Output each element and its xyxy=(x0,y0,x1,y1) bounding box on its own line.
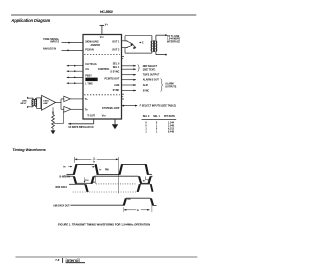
svg-text:OUT 2: OUT 2 xyxy=(112,49,120,52)
svg-text:AMI DATA OUT: AMI DATA OUT xyxy=(53,205,70,208)
svg-text:C: C xyxy=(142,42,144,44)
pin PCM IN label xyxy=(85,49,94,52)
pin SYNC label xyxy=(113,89,120,92)
svg-text:S SYNC: S SYNC xyxy=(110,71,119,74)
pin stub unconnected lower right xyxy=(122,94,125,99)
pin PCM/TS OUT label xyxy=(105,77,120,80)
node DATA OUT label xyxy=(53,205,70,208)
pin stub unconnected upper right xyxy=(122,57,125,59)
svg-text:intersil: intersil xyxy=(66,258,80,263)
svg-text:tD: tD xyxy=(143,179,146,182)
wire analog in to IC xyxy=(62,49,84,51)
wire IC to driver upper xyxy=(122,40,128,42)
svg-text:SYNC: SYNC xyxy=(143,90,150,92)
wire data waveform row 2 xyxy=(66,176,153,184)
svg-text:PCM/TS OUT: PCM/TS OUT xyxy=(105,77,120,80)
svg-text:B-NRZ IN: B-NRZ IN xyxy=(59,177,70,179)
svg-text:TONE SIGNAL: TONE SIGNAL xyxy=(43,38,59,41)
pin OUT 2 label xyxy=(112,49,120,52)
node alarm B label xyxy=(143,79,160,82)
wire alarm B pin xyxy=(122,79,137,81)
svg-text:HC-5560: HC-5560 xyxy=(100,10,113,14)
svg-text:ANALOG IN: ANALOG IN xyxy=(43,47,56,50)
footer divider bar xyxy=(62,258,64,263)
svg-text:ALARM B OUT: ALARM B OUT xyxy=(143,79,160,82)
svg-text:FIGURE 1. TRANSMIT TIMING WAVE: FIGURE 1. TRANSMIT TIMING WAVEFORMS FOR … xyxy=(58,222,150,226)
node tR label xyxy=(63,166,72,169)
svg-text:TS/FS OUTPUT: TS/FS OUTPUT xyxy=(143,75,160,77)
svg-text:PCM IN: PCM IN xyxy=(85,49,94,52)
wire control CH TR xyxy=(66,65,83,67)
wire threshold feedback xyxy=(54,111,64,123)
wire sampling reference line xyxy=(118,157,120,194)
svg-text:Application Diagram: Application Diagram xyxy=(10,18,50,23)
node LINE INPUT terminals xyxy=(20,97,30,108)
pin TI OUT label xyxy=(87,115,95,118)
wire frequency select pin xyxy=(122,105,138,107)
node TONE SIGNAL input label xyxy=(43,38,59,44)
svg-text:SEL 0: SEL 0 xyxy=(143,115,150,118)
wire amp output node xyxy=(56,99,64,109)
node clock fall reference tick xyxy=(94,176,96,184)
svg-text:tSU: tSU xyxy=(85,179,89,182)
node row2 end setup arrow xyxy=(146,176,151,180)
section heading Timing Waveforms xyxy=(12,147,46,152)
node B-NRZ IN label xyxy=(59,177,70,179)
svg-text:fS: fS xyxy=(93,161,96,163)
node TS/FS label xyxy=(143,75,160,77)
pin CH TR label xyxy=(85,63,97,66)
pin SEL 0 label xyxy=(113,62,120,65)
node select table header xyxy=(142,115,177,119)
wire tone signal to IC xyxy=(62,42,84,44)
svg-text:BIT RATE: BIT RATE xyxy=(164,115,175,118)
wire dashed divider lower xyxy=(84,94,120,96)
svg-text:DATA: DATA xyxy=(43,99,49,102)
transistor Q1 line driver xyxy=(125,36,136,53)
svg-text:1: 1 xyxy=(145,131,147,134)
node coupling network box xyxy=(36,98,41,109)
wire dashed divider upper xyxy=(84,54,120,56)
wire bipolar I/O below IC xyxy=(68,119,93,125)
svg-text:INPUT: INPUT xyxy=(20,103,27,105)
svg-text:SYNC: SYNC xyxy=(113,89,120,92)
wire buffer B1 to IC xyxy=(70,98,83,100)
svg-text:PW: PW xyxy=(105,169,110,171)
svg-text:1.544 MBPS: 1.544 MBPS xyxy=(167,38,180,41)
node output delay dimension xyxy=(124,200,152,212)
svg-text:tF: tF xyxy=(99,168,102,171)
svg-text:tPD: tPD xyxy=(128,198,132,201)
svg-text:NRZ DATA: NRZ DATA xyxy=(56,186,68,189)
svg-text:A/L: A/L xyxy=(85,68,89,71)
intersil logo xyxy=(66,258,86,263)
svg-text:Timing Waveforms: Timing Waveforms xyxy=(12,147,46,152)
ground for R1 xyxy=(51,130,56,135)
svg-text:V+: V+ xyxy=(105,23,109,27)
svg-text:(SEE TEXT): (SEE TEXT) xyxy=(143,69,156,71)
svg-text:SYSTEM LOOP: SYSTEM LOOP xyxy=(102,107,120,110)
pin L TMG label xyxy=(85,83,93,86)
svg-text:ALARM: ALARM xyxy=(165,82,173,85)
node tSU tH labels xyxy=(84,177,96,184)
svg-text:AND/OR: AND/OR xyxy=(91,44,101,47)
pin A/L CONTROL label xyxy=(85,68,110,71)
wire control A/L xyxy=(66,70,83,72)
svg-text:NRZ SELECT: NRZ SELECT xyxy=(143,66,158,68)
svg-text:OUTPUTS: OUTPUTS xyxy=(165,86,176,88)
pin VCC label xyxy=(100,36,105,39)
footer rule xyxy=(16,256,198,258)
svg-text:1: 1 xyxy=(156,131,158,134)
wire T1 secondary to line xyxy=(156,34,167,55)
footer page number xyxy=(55,258,59,262)
pin OUT 1 label xyxy=(112,40,120,43)
node ALM label xyxy=(143,84,148,87)
node alarm outputs brace xyxy=(160,79,176,92)
transformer T2 line input xyxy=(31,98,37,107)
pin S SYNC label xyxy=(110,71,119,74)
svg-text:LB/TMG: LB/TMG xyxy=(86,79,95,82)
node tD label xyxy=(143,179,151,182)
wire data waveform row 3 xyxy=(69,184,154,192)
svg-text:7-8: 7-8 xyxy=(55,258,59,262)
svg-text:VCC: VCC xyxy=(100,36,105,39)
wire driver bottom rail xyxy=(125,52,152,54)
node frequency select label xyxy=(140,105,177,108)
svg-text:ALM: ALM xyxy=(114,84,119,87)
svg-text:ALM: ALM xyxy=(143,84,148,87)
wire TS/FS output pin xyxy=(122,74,137,76)
wire data waveform row 4 xyxy=(70,198,156,205)
pin PBSY label xyxy=(85,74,92,77)
svg-text:CH TR A/L: CH TR A/L xyxy=(85,63,97,66)
node ANALOG IN label xyxy=(43,47,56,50)
svg-text:L TMG: L TMG xyxy=(85,83,93,86)
node SYNC label xyxy=(143,90,150,92)
node select table rows xyxy=(145,122,174,134)
wire control PBSY xyxy=(66,77,83,79)
svg-text:TI OUT: TI OUT xyxy=(87,115,95,118)
resistor R1 xyxy=(52,107,55,129)
op-amp U1 HC-5560 main IC body xyxy=(83,35,122,120)
svg-text:INTERFACE: INTERFACE xyxy=(167,41,180,44)
figure caption xyxy=(58,222,150,226)
svg-text:SEL 1: SEL 1 xyxy=(113,66,120,69)
pin TB label xyxy=(85,108,88,111)
pin SEL 1 label xyxy=(113,66,120,69)
node bipolar label xyxy=(68,126,93,129)
transformer T1 output xyxy=(151,36,157,53)
node NRZ DATA label xyxy=(56,186,68,189)
wire control L TMG xyxy=(66,82,83,84)
pin ALM label xyxy=(114,84,119,87)
node V+ supply terminal xyxy=(100,23,109,35)
buffer B1 xyxy=(64,96,71,101)
pin LB/TMG inverted label xyxy=(85,78,97,82)
pin TA label xyxy=(85,98,88,101)
wire clock waveform row 1 xyxy=(67,164,152,175)
wire buffer B2 to IC xyxy=(71,108,83,110)
ground below IC xyxy=(112,119,118,129)
svg-text:tD: tD xyxy=(137,209,140,212)
svg-text:F SELECT INPUTS (SEE TABLE): F SELECT INPUTS (SEE TABLE) xyxy=(140,105,177,108)
pin SIGNALING IN label xyxy=(85,40,100,46)
node tF label xyxy=(92,166,110,171)
svg-text:PBSY: PBSY xyxy=(85,74,92,77)
svg-text:LINE: LINE xyxy=(22,100,27,102)
wire SYNC pin xyxy=(122,90,137,92)
wire IC to driver lower xyxy=(122,47,128,49)
svg-text:TO T1 LINE: TO T1 LINE xyxy=(167,36,180,38)
svg-text:SEL 1: SEL 1 xyxy=(153,115,160,118)
wire NRZ select pin 2 xyxy=(122,68,137,70)
node tPD label xyxy=(128,198,132,201)
header rule xyxy=(11,14,196,16)
svg-text:64 KBPS BIPOLAR I/O: 64 KBPS BIPOLAR I/O xyxy=(68,126,93,129)
pin SYSTEM LOOP label xyxy=(102,107,120,110)
node C1 label with arrow xyxy=(139,42,144,45)
svg-text:INPUTS: INPUTS xyxy=(50,42,59,44)
node T1 line label xyxy=(167,36,180,44)
wire ALM pin xyxy=(122,84,137,86)
node NRZ select brace and label xyxy=(138,65,158,72)
node period dimension 1/fS xyxy=(75,157,119,163)
svg-text:tR: tR xyxy=(63,166,66,169)
pin VSS label xyxy=(102,115,107,118)
op-amp A1 data amplifier xyxy=(42,95,56,110)
wire NRZ select pin 1 xyxy=(122,65,137,67)
svg-text:OUT 1: OUT 1 xyxy=(112,40,120,43)
svg-text:AMP: AMP xyxy=(43,102,48,105)
section heading Application Diagram xyxy=(10,18,50,23)
header text HC-5560 xyxy=(100,10,113,14)
wire driver top rail xyxy=(125,35,152,37)
svg-text:CONTROL: CONTROL xyxy=(98,68,110,71)
svg-text:8.448: 8.448 xyxy=(168,131,175,134)
buffer B2 xyxy=(64,106,71,112)
